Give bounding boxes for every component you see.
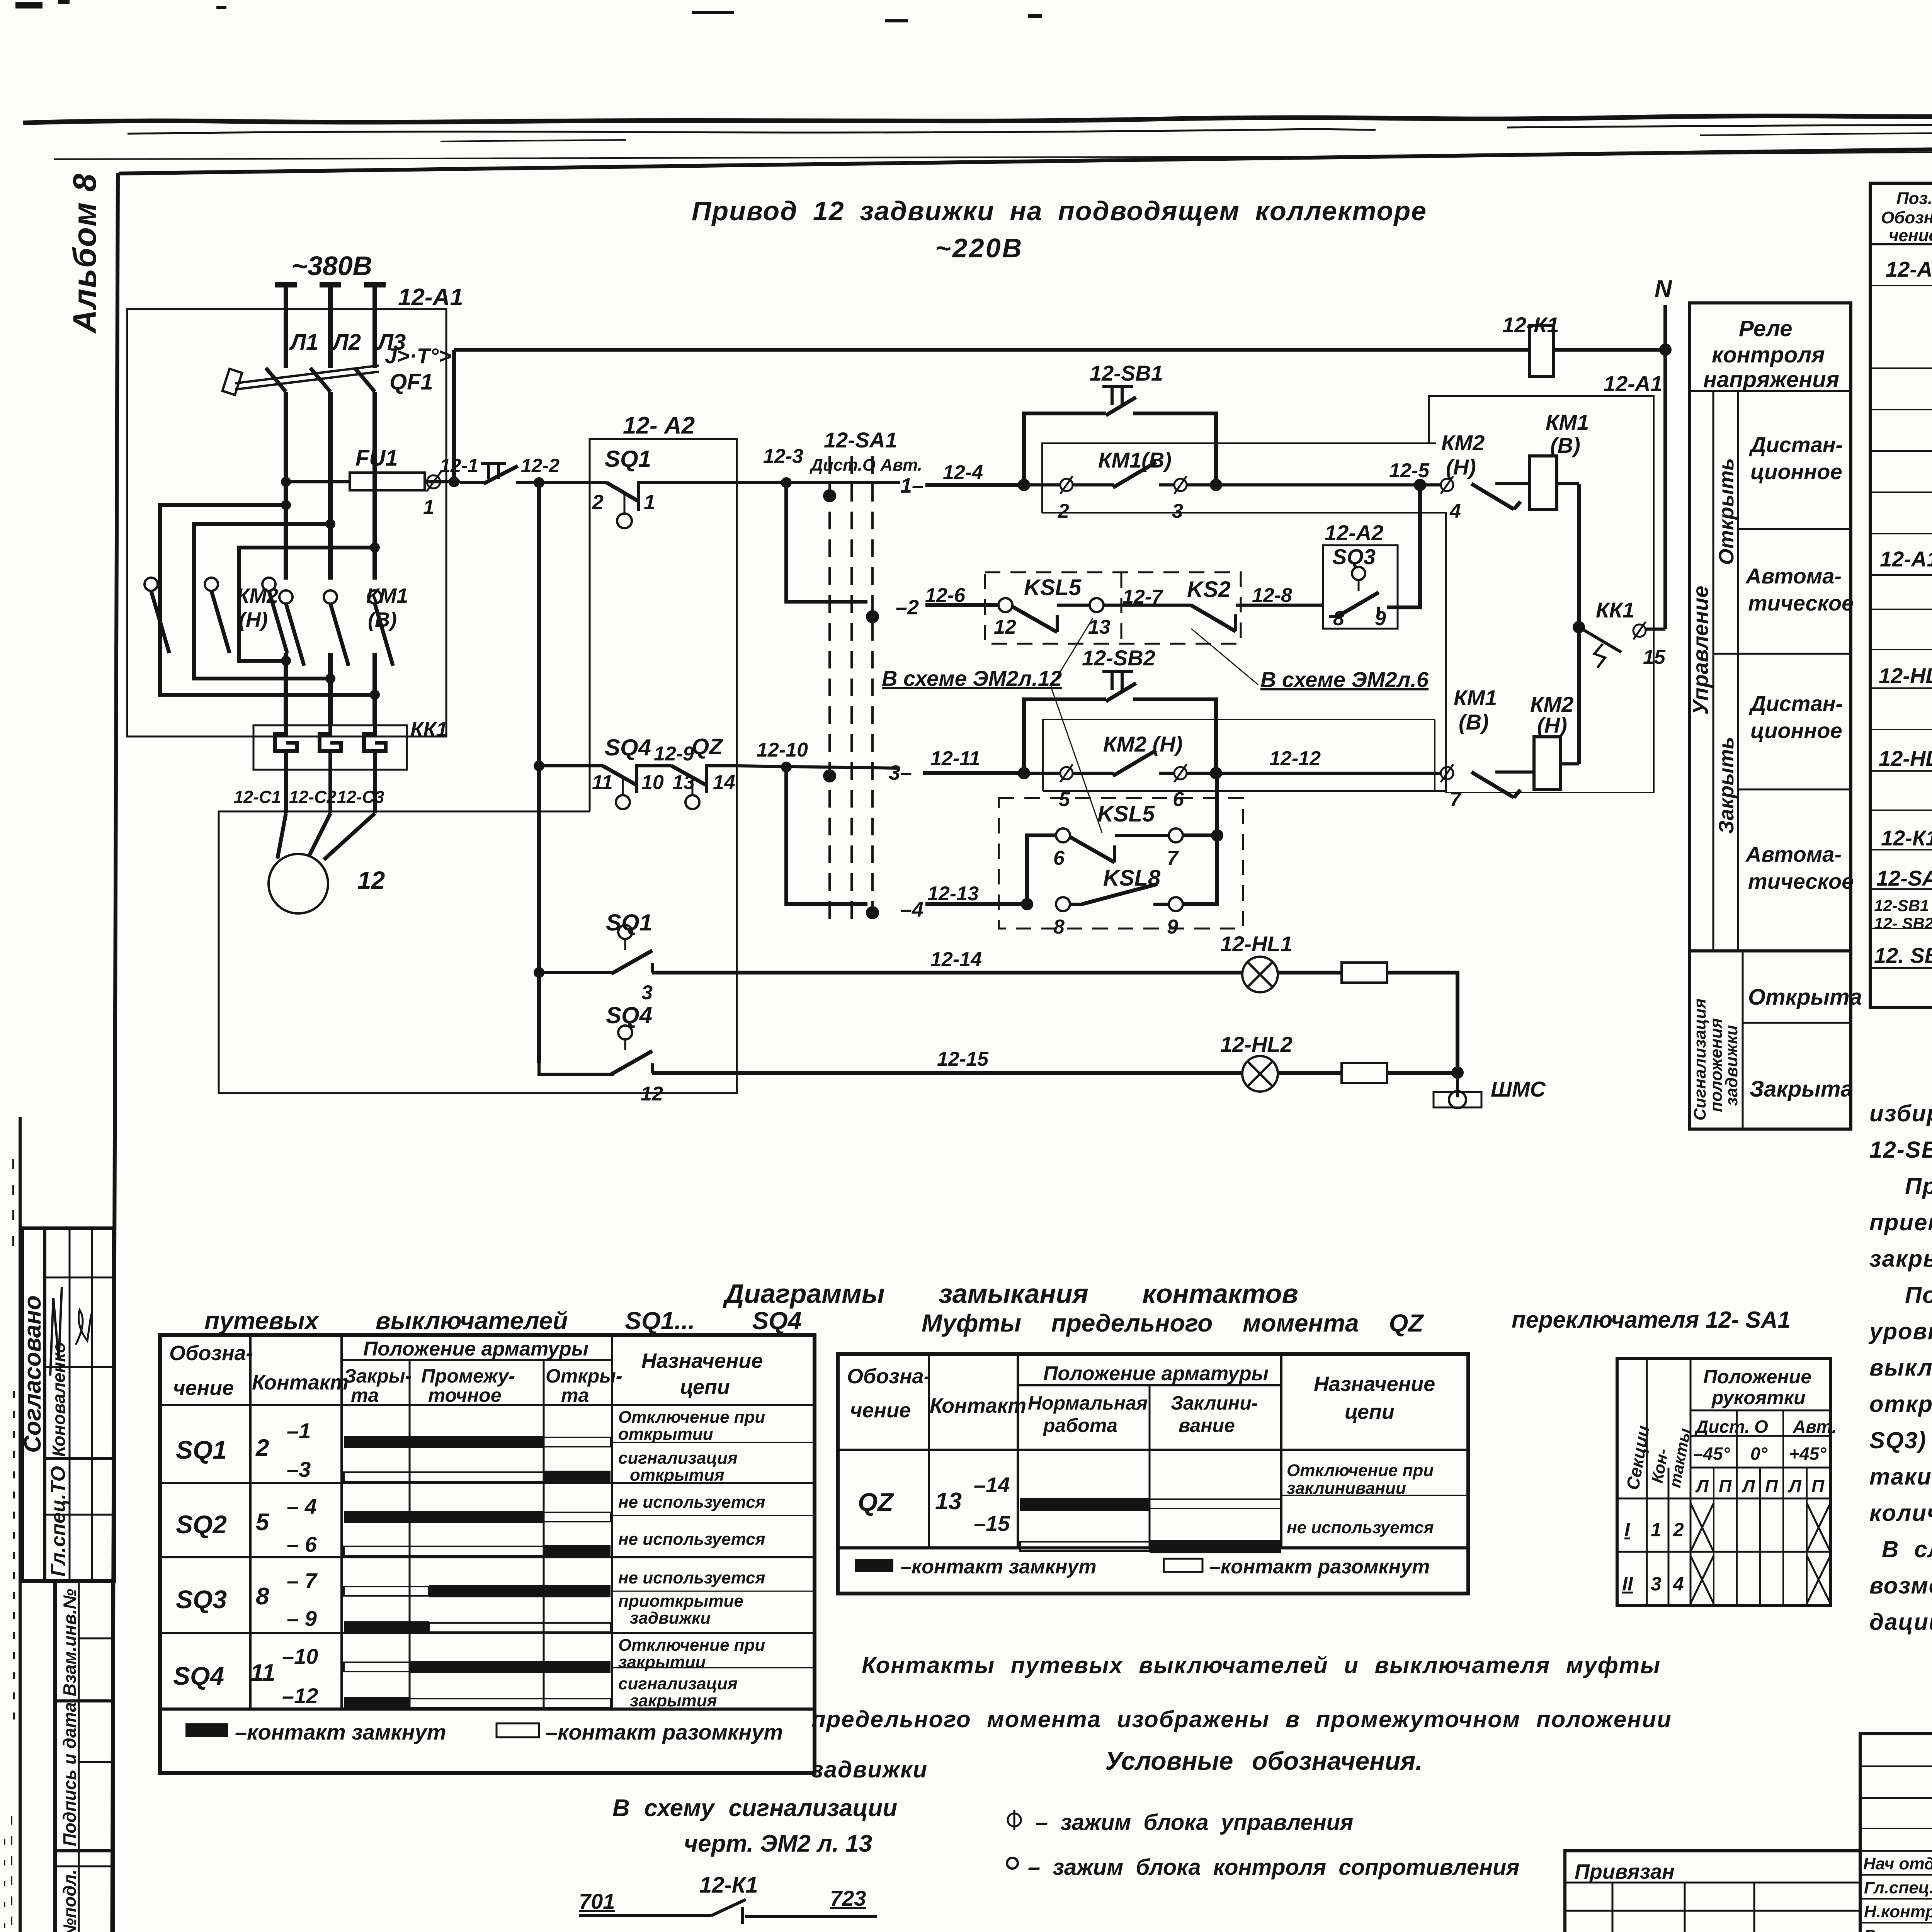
svg-text:–контакт разомкнут: –контакт разомкнут <box>1209 1556 1430 1578</box>
scan edge artifact left <box>5 1117 20 1932</box>
breaker QF1 three poles with trip bar <box>223 344 451 395</box>
svg-text:– 6: – 6 <box>287 1532 317 1556</box>
svg-text:В случае затопления машзала: В случае затопления машзала приоткрытие … <box>1882 1536 1932 1562</box>
limit switch SQ3 box (12-A2) <box>1323 485 1420 630</box>
svg-text:задвижки: задвижки <box>1722 1025 1741 1106</box>
svg-text:3: 3 <box>1651 1573 1662 1595</box>
svg-text:SQ4: SQ4 <box>606 1002 652 1028</box>
top rail to relay 12-K1 <box>454 348 1529 352</box>
svg-text:Л: Л <box>1695 1476 1709 1496</box>
svg-text:QZ: QZ <box>692 734 724 759</box>
svg-text:дации затопления: дации затопления <box>1869 1609 1932 1635</box>
svg-text:Открыта: Открыта <box>1748 985 1862 1010</box>
terminal SHMS <box>1434 1073 1546 1108</box>
annotation leader to EM2 sheet 6 <box>1191 629 1429 692</box>
note under diagrams <box>811 1652 1672 1782</box>
svg-text:не используется: не используется <box>1287 1518 1434 1537</box>
svg-text:12-НL1: 12-НL1 <box>1879 663 1932 688</box>
svg-text:Обозна-: Обозна- <box>847 1365 931 1388</box>
svg-text:Контакты путевых выключат: Контакты путевых выключателей и выключат… <box>862 1652 1661 1678</box>
svg-text:SQ1: SQ1 <box>605 446 651 472</box>
node 12-1 junction <box>449 476 459 487</box>
svg-text:– 7: – 7 <box>287 1568 318 1593</box>
SQ3 diagram row <box>176 1568 815 1634</box>
svg-text:12-3: 12-3 <box>763 445 803 468</box>
svg-text:4: 4 <box>1673 1573 1684 1595</box>
svg-text:–45°: –45° <box>1693 1444 1730 1464</box>
svg-text:12-НL2: 12-НL2 <box>1220 1032 1293 1056</box>
svg-text:I: I <box>1624 1519 1630 1541</box>
svg-text:–1: –1 <box>287 1418 311 1443</box>
svg-text:SQ1: SQ1 <box>176 1435 227 1464</box>
svg-text:Закрыта: Закрыта <box>1750 1077 1853 1102</box>
svg-text:8: 8 <box>256 1583 269 1610</box>
SQ4 diagram row <box>173 1636 815 1710</box>
limit switch SQ4 signaling <box>539 1002 663 1105</box>
limit switch SQ1 (NC in line 1) <box>592 446 737 528</box>
svg-text:предельного момента изоб: предельного момента изображены в промежу… <box>811 1706 1672 1732</box>
svg-text:заклинивании: заклинивании <box>1287 1479 1406 1498</box>
coil bus to KK1 <box>1577 484 1581 764</box>
svg-text:12-К1: 12-К1 <box>699 1872 758 1898</box>
terminal 1 of block 12-A1 <box>423 471 441 519</box>
legend item: block control terminal <box>1008 1810 1353 1835</box>
svg-text:(В): (В) <box>1459 710 1489 734</box>
note to signalling diagram <box>612 1795 897 1857</box>
svg-text:12: 12 <box>994 616 1016 638</box>
node SB1 bridge right <box>1210 479 1222 491</box>
svg-text:II: II <box>1622 1573 1633 1595</box>
left margin lower stamp boxes <box>55 1581 113 1932</box>
svg-text:таким образом, чтобы обеспеч: таким образом, чтобы обеспечить приток с… <box>1869 1464 1932 1490</box>
svg-text:12-13: 12-13 <box>927 883 979 905</box>
svg-text:Контакт: Контакт <box>930 1394 1026 1417</box>
svg-text:чение: чение <box>173 1376 234 1400</box>
block 12-A2 outline (drive with limit switches) <box>219 412 737 1093</box>
lamp 12-HL1 <box>1220 932 1293 992</box>
svg-text:та: та <box>561 1384 589 1406</box>
svg-text:выключателя SQ3 частично отк: выключателя SQ3 частично открывается. Ве… <box>1869 1355 1932 1381</box>
svg-text:П: П <box>1719 1476 1732 1496</box>
svg-text:Гл.спец.: Гл.спец. <box>1864 1878 1932 1897</box>
svg-text:Заклини-: Заклини- <box>1171 1392 1258 1414</box>
svg-text:(Н): (Н) <box>239 608 268 631</box>
node after SB3 with drop bus <box>534 477 544 488</box>
svg-text:задвижки: задвижки <box>630 1609 711 1628</box>
svg-text:1: 1 <box>423 496 434 519</box>
svg-text:SQ4: SQ4 <box>173 1662 224 1690</box>
svg-text:Отключение при: Отключение при <box>618 1636 765 1655</box>
svg-text:6: 6 <box>1173 788 1184 811</box>
SQ1 diagram row <box>176 1408 815 1485</box>
riser KSL branch to node SB2 right <box>1215 773 1219 835</box>
svg-text:КК1: КК1 <box>410 718 447 741</box>
svg-text:Согласовано: Согласовано <box>19 1295 46 1453</box>
svg-text:12-SВ1...12-SВ3 со шкафа уп: 12-SВ1...12-SВ3 со шкафа управления и ав… <box>1869 1137 1932 1163</box>
pushbutton 12-SB2 close (bridge) <box>1024 646 1216 773</box>
svg-text:(Н): (Н) <box>1446 455 1476 479</box>
svg-text:12-5: 12-5 <box>1389 459 1430 482</box>
parts table content <box>1874 257 1932 1007</box>
svg-text:Промежу-: Промежу- <box>421 1365 515 1387</box>
svg-text:Закрыть: Закрыть <box>1715 737 1738 834</box>
thermal overload relay KK1 heaters <box>253 718 447 813</box>
svg-text:Поз.: Поз. <box>1896 189 1932 208</box>
svg-text:открытия задвижки ( настройка: открытия задвижки ( настройка путевого в… <box>1869 1391 1932 1417</box>
wire 12-11 <box>923 747 1024 773</box>
svg-text:9: 9 <box>1167 916 1178 938</box>
svg-text:SQ1: SQ1 <box>606 910 652 935</box>
svg-text:цепи: цепи <box>680 1376 730 1399</box>
N wire and terminal <box>1554 276 1672 350</box>
svg-text:–3: –3 <box>287 1457 311 1481</box>
svg-text:закрытии: закрытии <box>618 1653 706 1672</box>
contact KM2(N) interlock in line1 <box>1426 430 1529 522</box>
parts list table <box>1870 183 1932 1007</box>
svg-text:12-12: 12-12 <box>1269 747 1321 770</box>
svg-text:П: П <box>1765 1476 1778 1496</box>
svg-text:Отключение при: Отключение при <box>618 1408 765 1427</box>
title block: signature columns <box>1860 1734 1932 1932</box>
svg-text:12-SА1: 12-SА1 <box>1876 866 1932 890</box>
svg-text:Обозна-: Обозна- <box>169 1342 253 1365</box>
node 12-3 <box>781 477 792 488</box>
svg-text:12-А2: 12-А2 <box>1325 520 1384 545</box>
svg-text:КМ2: КМ2 <box>1441 430 1485 455</box>
svg-text:Обозна-: Обозна- <box>1881 208 1932 227</box>
svg-text:– 4: – 4 <box>287 1494 317 1519</box>
svg-text:12-НL2: 12-НL2 <box>1879 746 1932 770</box>
svg-text:QZ: QZ <box>858 1488 894 1516</box>
node SB2 bridge right <box>1210 767 1222 779</box>
svg-text:Н.контр.: Н.контр. <box>1864 1902 1932 1921</box>
svg-text:12-1: 12-1 <box>440 455 478 476</box>
wire 12-15 <box>652 1048 1242 1073</box>
svg-text:контроля: контроля <box>1712 342 1825 367</box>
wire to N rail riser <box>452 350 456 482</box>
svg-text:открытия: открытия <box>630 1466 724 1485</box>
svg-text:тическое: тическое <box>1748 869 1854 893</box>
svg-text:Назначение: Назначение <box>1314 1372 1435 1396</box>
SQ table legend row <box>185 1720 783 1744</box>
svg-text:В схеме ЭМ2л.12: В схеме ЭМ2л.12 <box>882 666 1062 690</box>
svg-text:Диаграммы замыкания ко: Диаграммы замыкания контактов <box>723 1279 1298 1309</box>
svg-text:12-SB2: 12-SB2 <box>1082 646 1155 670</box>
svg-text:6: 6 <box>1053 847 1065 869</box>
svg-text:–2: –2 <box>896 596 919 619</box>
svg-text:не используется: не используется <box>618 1568 765 1587</box>
block boundary channel row3 (12-A1) <box>1043 719 1435 791</box>
svg-text:ШМС: ШМС <box>1491 1077 1546 1101</box>
svg-text:Гл.спец.ТО: Гл.спец.ТО <box>47 1466 70 1577</box>
svg-text:КМ2 (Н): КМ2 (Н) <box>1103 732 1183 756</box>
svg-text:– 9: – 9 <box>287 1606 317 1631</box>
svg-text:напряжения: напряжения <box>1703 367 1839 392</box>
svg-text:4: 4 <box>1449 500 1461 522</box>
svg-text:не используется: не используется <box>618 1530 765 1549</box>
limit switch SQ4 and QZ in line of SQ4/QZ row <box>534 734 737 809</box>
svg-text:–14: –14 <box>974 1473 1010 1497</box>
svg-text:сигнализация: сигнализация <box>618 1449 738 1468</box>
svg-text:(В): (В) <box>368 608 397 631</box>
phase L2 supply lead <box>320 285 361 368</box>
ballast resistor of HL2 <box>1278 1063 1458 1083</box>
motor feeder risers to KK1 <box>286 653 375 725</box>
svg-text:12- SВ2: 12- SВ2 <box>1874 914 1932 932</box>
scan streak top wavy band <box>23 111 1932 159</box>
svg-text:KS2: KS2 <box>1187 577 1231 602</box>
annotation table: function column <box>1688 303 1862 1129</box>
svg-text:цепи: цепи <box>1345 1400 1395 1423</box>
svg-text:О: О <box>1754 1417 1768 1437</box>
annotation leader to EM2 sheet 12 <box>882 618 1102 833</box>
relay coil 12-K1 (voltage monitoring) <box>1502 313 1559 376</box>
svg-text:J>·T°>: J>·T°> <box>385 344 451 368</box>
svg-text:КМ2: КМ2 <box>236 584 278 607</box>
svg-text:(Н): (Н) <box>1537 713 1567 737</box>
node SB2 bridge left <box>1018 767 1030 779</box>
svg-text:–10: –10 <box>282 1644 318 1668</box>
svg-text:не используется: не используется <box>618 1493 765 1512</box>
svg-text:2: 2 <box>1673 1519 1684 1541</box>
contact KSL8 (line 4) <box>1053 835 1217 938</box>
svg-text:Дистан-: Дистан- <box>1749 432 1843 457</box>
svg-text:12-9: 12-9 <box>654 743 694 765</box>
dashed box KSL5/KSL8 <box>999 798 1243 929</box>
svg-text:12-А1: 12-А1 <box>1604 371 1663 396</box>
svg-text:Дистан-: Дистан- <box>1749 691 1843 716</box>
svg-text:12-2: 12-2 <box>521 455 560 476</box>
svg-text:12-4: 12-4 <box>943 461 983 484</box>
svg-text:12-8: 12-8 <box>1252 584 1292 607</box>
contact KM2(N) hold in line3 <box>1029 732 1414 811</box>
contactor KM2(N) power contacts <box>145 578 287 653</box>
wire 12-5 node <box>1389 459 1430 491</box>
N bus riser <box>1663 305 1667 629</box>
diagram headings <box>204 1279 1791 1337</box>
svg-text:приемного резервуара или за: приемного резервуара или затоплении машз… <box>1869 1209 1932 1235</box>
svg-text:3: 3 <box>1172 500 1183 522</box>
svg-text:КМ1: КМ1 <box>1454 685 1497 710</box>
wire row1 into A2 <box>539 481 607 484</box>
svg-text:При автоматическом управлен: При автоматическом управлении, в случае … <box>1905 1173 1932 1199</box>
svg-text:закрывается.: закрывается. <box>1869 1246 1932 1272</box>
svg-text:ционное: ционное <box>1750 718 1842 743</box>
svg-text:12-НL1: 12-НL1 <box>1220 932 1293 956</box>
wire 12-14 <box>652 948 1242 973</box>
svg-text:SQ2: SQ2 <box>176 1510 227 1539</box>
svg-text:Нормальная: Нормальная <box>1028 1392 1148 1414</box>
motor cable labels 12-C1 12-C2 12-C3 <box>234 787 384 807</box>
svg-text:Альбом 8: Альбом 8 <box>66 173 103 334</box>
svg-text:12-11: 12-11 <box>930 747 980 770</box>
legend item: resistance monitor terminal <box>1007 1855 1520 1880</box>
svg-text:12-SA1: 12-SA1 <box>824 428 897 452</box>
dashed box KSL5/KS2 <box>985 572 1241 644</box>
svg-text:12-А1: 12-А1 <box>1880 547 1932 571</box>
svg-text:возможно только при снятии: возможно только при снятии блокировки по… <box>1869 1573 1932 1599</box>
svg-text:KSL5: KSL5 <box>1024 575 1082 600</box>
svg-text:11: 11 <box>250 1660 275 1686</box>
phase risers below QF1 <box>286 392 375 580</box>
svg-text:2: 2 <box>1058 500 1069 522</box>
svg-text:В схему сигнализации: В схему сигнализации <box>612 1795 897 1821</box>
svg-text:уровня приоткрытия задвижк: уровня приоткрытия задвижка с помощью пу… <box>1868 1318 1932 1344</box>
svg-text:12-К1: 12-К1 <box>1881 826 1932 850</box>
svg-text:1: 1 <box>644 491 655 514</box>
block boundary coils box (12-A1) <box>1429 371 1663 793</box>
motor 12 <box>269 813 385 913</box>
svg-text:723: 723 <box>830 1886 866 1910</box>
coil KM2 (contactor close) <box>1530 692 1579 789</box>
contact KSL5 (line 4 upper branch) <box>1027 801 1217 904</box>
svg-text:тическое: тическое <box>1748 591 1854 615</box>
svg-text:12-SB1: 12-SB1 <box>1090 361 1163 385</box>
svg-text:работа: работа <box>1043 1415 1117 1436</box>
wire row4 branch from node 12-10 <box>786 767 867 904</box>
svg-text:Л: Л <box>1788 1476 1802 1496</box>
svg-text:открытии: открытии <box>618 1425 713 1444</box>
contact diagram table QZ <box>838 1354 1468 1594</box>
svg-text:SQ3: SQ3 <box>1332 544 1376 569</box>
selector diagram table 12-SA1 <box>1617 1359 1837 1605</box>
node KK1 <box>1573 621 1585 633</box>
node KSL branch right <box>1211 829 1223 842</box>
svg-text:KSL5: KSL5 <box>1097 801 1155 827</box>
svg-text:переключателя 12- SА1: переключателя 12- SА1 <box>1512 1307 1791 1333</box>
svg-text:КК1: КК1 <box>1596 598 1634 622</box>
svg-text:~380В: ~380В <box>292 251 372 281</box>
svg-text:та: та <box>351 1384 379 1406</box>
svg-text:–контакт замкнут: –контакт замкнут <box>900 1556 1096 1578</box>
svg-text:SQ3) определяется в процессе: SQ3) определяется в процессе наладки и э… <box>1869 1427 1932 1453</box>
svg-text:12: 12 <box>641 1083 663 1105</box>
contact KSL5 (line 2) <box>994 575 1111 638</box>
svg-text:–15: –15 <box>974 1511 1010 1536</box>
left margin approval stamp boxes <box>19 1228 114 1581</box>
svg-text:–контакт разомкнут: –контакт разомкнут <box>546 1720 783 1744</box>
parts table rows <box>1870 286 1932 968</box>
svg-text:FU1: FU1 <box>355 446 398 471</box>
svg-text:12: 12 <box>357 866 385 894</box>
node HL junction <box>1451 1066 1464 1079</box>
svg-text:1: 1 <box>1651 1519 1662 1541</box>
selector switch 12-SA1 dashed lines <box>809 428 922 929</box>
svg-text:чение: чение <box>850 1399 911 1422</box>
svg-text:0°: 0° <box>1750 1444 1768 1464</box>
svg-text:12-С3: 12-С3 <box>337 787 384 807</box>
svg-text:Рук.гр.: Рук.гр. <box>1864 1926 1922 1932</box>
svg-text:3–: 3– <box>889 761 912 784</box>
svg-text:Муфты предельного момента: Муфты предельного момента QZ <box>922 1309 1424 1337</box>
svg-text:путевых выключателей: путевых выключателей SQ1... SQ4 <box>204 1307 802 1335</box>
ballast resistor of HL1 <box>1278 963 1458 1073</box>
svg-text:В схеме ЭМ2л.6: В схеме ЭМ2л.6 <box>1260 667 1429 692</box>
svg-text:Л: Л <box>1742 1476 1755 1496</box>
svg-text:11: 11 <box>592 771 613 794</box>
svg-text:13: 13 <box>935 1488 962 1515</box>
description text block <box>1868 1064 1932 1635</box>
block 12-A1 upper box <box>127 284 463 736</box>
svg-text:количестве, равном производит: количестве, равном производительности од… <box>1869 1500 1932 1526</box>
svg-text:12-14: 12-14 <box>930 948 982 971</box>
node SB1 bridge left <box>1018 479 1030 491</box>
contactor KM1(V) power contacts <box>279 584 408 666</box>
pushbutton 12-SB3 stop <box>440 455 560 484</box>
svg-text:черт. ЭМ2 л. 13: черт. ЭМ2 л. 13 <box>684 1830 872 1857</box>
svg-text:чение: чение <box>1889 226 1932 245</box>
left control drop bus <box>537 483 541 1063</box>
svg-text:8: 8 <box>1333 607 1344 630</box>
contact KM1(V) interlock in line3 <box>1414 685 1534 811</box>
title block: attachment box <box>1565 1851 1860 1932</box>
svg-text:ционное: ционное <box>1750 459 1842 484</box>
svg-text:КМ1: КМ1 <box>1546 410 1589 434</box>
svg-text:12. SВ3: 12. SВ3 <box>1874 943 1932 968</box>
svg-text:Дист.: Дист. <box>1694 1417 1750 1437</box>
svg-text:Л1: Л1 <box>289 330 318 355</box>
svg-text:SQ4: SQ4 <box>605 735 651 760</box>
svg-text:12-15: 12-15 <box>937 1048 989 1070</box>
svg-text:Положение арматуры: Положение арматуры <box>1043 1362 1269 1385</box>
phase L1 supply lead <box>275 285 318 368</box>
coil KM1 (contactor open) <box>1529 410 1589 509</box>
svg-text:10: 10 <box>641 771 664 794</box>
svg-text:– зажим блока контроля сопр: – зажим блока контроля сопротивления <box>1028 1855 1520 1880</box>
contact KS2 (line 2) <box>1187 577 1323 631</box>
svg-text:КМ1: КМ1 <box>366 584 408 607</box>
block boundary channel row1 (12-A1) <box>1042 443 1436 513</box>
svg-text:Нач отд: Нач отд <box>1863 1854 1932 1873</box>
svg-text:Закры-: Закры- <box>344 1365 412 1387</box>
svg-text:12-С2: 12-С2 <box>289 787 337 807</box>
svg-text:Авт.: Авт. <box>1793 1417 1837 1437</box>
svg-text:избирателем 12- SА1: дистанц: избирателем 12- SА1: дистанционное с пом… <box>1869 1100 1932 1126</box>
svg-text:2: 2 <box>255 1435 269 1461</box>
svg-text:–12: –12 <box>282 1684 318 1708</box>
svg-text:3: 3 <box>641 981 653 1004</box>
contact diagram table SQ1..SQ4 <box>160 1335 815 1773</box>
lamp 12-HL2 <box>1220 1032 1293 1092</box>
svg-text:Положение: Положение <box>1703 1366 1811 1388</box>
node KSL branch left <box>1021 898 1033 910</box>
thermal contact KK1 <box>1579 598 1666 668</box>
svg-text:7: 7 <box>1167 847 1179 869</box>
svg-text:12-SВ1: 12-SВ1 <box>1874 896 1929 915</box>
svg-text:Привязан: Привязан <box>1575 1860 1675 1883</box>
svg-text:После откачки стоков из пр: После откачки стоков из приемного резерв… <box>1905 1282 1932 1308</box>
svg-text:Отключение при: Отключение при <box>1287 1461 1434 1480</box>
SQ2 diagram row <box>176 1493 815 1557</box>
svg-text:N: N <box>1655 276 1672 302</box>
relay contact 12-K1 to signalling <box>579 1872 877 1924</box>
wire 12-4 <box>925 461 1024 485</box>
svg-text:12- А2: 12- А2 <box>623 412 695 439</box>
limit switch SQ1 signaling <box>534 910 653 1004</box>
QZ table legend row <box>855 1556 1430 1578</box>
svg-text:Автома-: Автома- <box>1745 564 1842 588</box>
svg-text:12-С1: 12-С1 <box>234 787 281 807</box>
svg-text:Подпись и дата: Подпись и дата <box>60 1702 80 1846</box>
svg-text:Контакт: Контакт <box>252 1371 349 1394</box>
svg-text:14: 14 <box>713 771 735 794</box>
svg-text:12-10: 12-10 <box>757 739 808 761</box>
wire 12-10 <box>737 739 900 772</box>
svg-text:Реле: Реле <box>1739 316 1792 341</box>
svg-text:точное: точное <box>428 1384 502 1406</box>
svg-text:Автома-: Автома- <box>1745 842 1842 866</box>
svg-text:Л2: Л2 <box>332 330 361 355</box>
